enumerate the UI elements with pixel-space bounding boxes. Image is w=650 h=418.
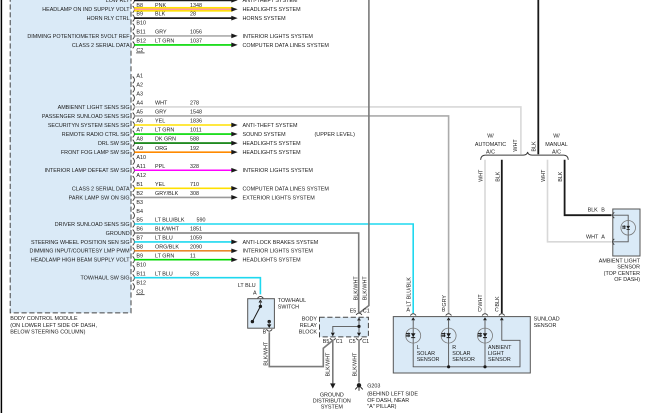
svg-text:LT GRN: LT GRN	[155, 253, 174, 259]
wire color label PNK pin B8	[155, 3, 202, 9]
arrow to HEADLIGHTS SYSTEM	[231, 257, 237, 262]
wire color label LT BLU/BLK pin B5	[155, 218, 206, 224]
switch contact dot bottom left	[251, 320, 254, 323]
wire B5 LT BLU/BLK 590 to sunload sensor pin A	[134, 224, 413, 313]
svg-text:28: 28	[190, 12, 196, 18]
svg-text:HEADLAMP HIGH BEAM SUPPLY VOLT: HEADLAMP HIGH BEAM SUPPLY VOLT	[31, 258, 130, 264]
svg-text:EXTERIOR LIGHTS SYSTEM: EXTERIOR LIGHTS SYSTEM	[243, 195, 316, 201]
svg-text:1548: 1548	[190, 110, 202, 116]
svg-text:AMBIENNT LIGHT SENS SIG: AMBIENNT LIGHT SENS SIG	[58, 105, 130, 111]
pin A4 bracket+label	[133, 101, 143, 111]
tow/haul switch S1 box	[248, 299, 275, 329]
svg-text:HEADLIGHTS SYSTEM: HEADLIGHTS SYSTEM	[243, 7, 302, 13]
svg-text:B10: B10	[136, 21, 146, 27]
body relay block (dashed box)	[320, 317, 369, 337]
svg-text:SENSOR: SENSOR	[488, 357, 511, 363]
svg-text:WHT: WHT	[513, 139, 519, 152]
pin B12 bracket+label	[133, 280, 146, 290]
svg-text:(TOP CENTER: (TOP CENTER	[604, 271, 640, 277]
sunload sensor pin D bracket	[482, 314, 488, 316]
svg-text:WHT: WHT	[541, 169, 547, 182]
brace splitting WHT/BLK into automatic and manual A/C	[481, 152, 569, 160]
svg-text:C5: C5	[349, 339, 356, 345]
wire B9 LT GRN to HEADLIGHTS SYSTEM	[134, 259, 231, 261]
svg-text:A9: A9	[136, 146, 143, 152]
pin B10 bracket+label	[133, 262, 146, 272]
svg-text:B2: B2	[136, 191, 143, 197]
pin A6 bracket+label	[133, 119, 143, 129]
wire A4 WHT 278 to A/C split	[134, 107, 521, 154]
svg-text:BLK/WHT: BLK/WHT	[352, 352, 358, 377]
wire color label LT GRN pin A7	[155, 128, 202, 134]
svg-text:OF DASH): OF DASH)	[614, 277, 640, 283]
pin B8 bracket+label	[133, 3, 143, 13]
arrow to EXTERIOR LIGHTS SYSTEM	[231, 195, 237, 200]
ground G203 symbol	[355, 383, 363, 391]
svg-text:TOW/HAUL SW SIG: TOW/HAUL SW SIG	[80, 276, 129, 282]
wire color label YEL pin B1	[155, 182, 199, 188]
svg-text:INTERIOR LAMP DEFEAT SW SIG: INTERIOR LAMP DEFEAT SW SIG	[45, 168, 130, 174]
svg-text:SYSTEM: SYSTEM	[321, 404, 344, 410]
pin B12 bracket+label	[133, 39, 146, 49]
svg-text:B5: B5	[136, 218, 143, 224]
svg-text:BLK/WHT: BLK/WHT	[354, 276, 360, 301]
wire color label GRY pin B11	[155, 30, 202, 36]
pin A5 bracket+label	[133, 110, 143, 120]
svg-text:LT GRN: LT GRN	[155, 128, 174, 134]
svg-text:SENSOR: SENSOR	[534, 323, 557, 329]
page left border line	[0, 0, 2, 413]
svg-text:INTERIOR LIGHTS SYSTEM: INTERIOR LIGHTS SYSTEM	[243, 168, 314, 174]
svg-text:HEADLIGHTS SYSTEM: HEADLIGHTS SYSTEM	[243, 150, 302, 156]
svg-text:A: A	[406, 308, 410, 314]
svg-text:INTERIOR LIGHTS SYSTEM: INTERIOR LIGHTS SYSTEM	[243, 249, 314, 255]
svg-text:WHT: WHT	[155, 101, 168, 107]
arrow into pin E5/C1	[357, 317, 361, 320]
wire color label LT BLU pin B7	[155, 236, 202, 242]
svg-text:1059: 1059	[190, 236, 202, 242]
arrow to HEADLIGHTS SYSTEM	[231, 150, 237, 155]
sunload sensor box	[393, 317, 530, 373]
svg-text:A: A	[601, 234, 605, 240]
wire color label GRY/BLK pin B2	[155, 191, 199, 197]
wire color label WHT pin A4	[155, 101, 199, 107]
svg-text:CLASS 2 SERIAL DATA: CLASS 2 SERIAL DATA	[72, 186, 130, 192]
svg-text:B7: B7	[136, 236, 143, 242]
wire color label ORG pin A9	[155, 146, 199, 152]
svg-text:B9: B9	[136, 253, 143, 259]
label TOW/HAUL SWITCH	[278, 298, 306, 310]
wire BLK manual A/C to ambient light sensor pin B	[565, 160, 612, 215]
svg-text:BLK: BLK	[495, 296, 501, 307]
svg-text:MANUAL: MANUAL	[545, 142, 567, 148]
svg-text:BLK: BLK	[495, 171, 501, 182]
wire WHT manual A/C to ambient light sensor pin A	[548, 160, 612, 242]
switch contact dot bottom right	[268, 320, 271, 323]
svg-text:BLK/WHT: BLK/WHT	[155, 227, 180, 233]
labels BLK B at pin B	[588, 208, 606, 214]
label W/ MANUAL A/C	[545, 134, 567, 156]
svg-text:B: B	[263, 329, 267, 335]
pin A2 bracket+label	[133, 83, 143, 93]
svg-text:BLK/WHT: BLK/WHT	[263, 341, 269, 366]
wire WHT automatic A/C to sunload pin D	[484, 160, 486, 313]
svg-text:A2: A2	[136, 83, 143, 89]
svg-text:E5: E5	[350, 309, 357, 315]
wire B11 GRY to INTERIOR LIGHTS SYSTEM	[134, 35, 231, 37]
svg-text:YEL: YEL	[155, 182, 165, 188]
svg-text:588: 588	[190, 137, 199, 143]
wire color label LT GRN pin B12	[155, 39, 202, 45]
arrow to INTERIOR LIGHTS SYSTEM	[231, 168, 237, 173]
svg-text:WHT: WHT	[586, 234, 599, 240]
svg-text:BLK/WHT: BLK/WHT	[326, 352, 332, 377]
label R SOLAR SENSOR	[452, 345, 475, 363]
svg-text:WHT: WHT	[478, 294, 484, 307]
svg-text:HEADLAMP ON IND SUPPLY VOLT: HEADLAMP ON IND SUPPLY VOLT	[42, 7, 130, 13]
svg-text:PARK LAMP SW ON SIG: PARK LAMP SW ON SIG	[69, 195, 130, 201]
svg-text:SOUND SYSTEM: SOUND SYSTEM	[243, 132, 287, 138]
svg-text:(BEHIND LEFT SIDE: (BEHIND LEFT SIDE	[367, 392, 418, 398]
sunload internal wire pin C to common bus	[413, 320, 520, 367]
arrow to COMPUTER DATA LINES SYSTEM	[231, 186, 237, 191]
svg-text:LIGHT: LIGHT	[488, 351, 505, 357]
svg-text:PASSENGER SUNLOAD SENS SIG: PASSENGER SUNLOAD SENS SIG	[42, 114, 130, 120]
svg-text:(UPPER LEVEL): (UPPER LEVEL)	[315, 132, 356, 138]
svg-text:BODY: BODY	[302, 316, 318, 322]
svg-text:BLK: BLK	[588, 208, 599, 214]
svg-text:OF DASH, NEAR: OF DASH, NEAR	[367, 398, 409, 404]
svg-text:308: 308	[190, 191, 199, 197]
svg-text:ANTI-THEFT SYSTEM: ANTI-THEFT SYSTEM	[243, 123, 299, 129]
arrow to INTERIOR LIGHTS SYSTEM	[231, 34, 237, 39]
pin C5/C1 bracket	[356, 338, 362, 340]
wire B1 YEL to COMPUTER DATA LINES SYSTEM	[134, 187, 231, 189]
wire BLK/WHT from pin B5/C1 to ground distribution system	[332, 341, 334, 383]
svg-text:LT BLU: LT BLU	[238, 283, 256, 289]
svg-text:B4: B4	[136, 209, 143, 215]
svg-text:A1: A1	[136, 74, 143, 80]
svg-text:SOLAR: SOLAR	[452, 351, 470, 357]
pin B bracket of tow/haul switch	[266, 329, 272, 331]
switch blade	[252, 306, 260, 321]
wire BLK automatic A/C to sunload pin C	[501, 160, 503, 313]
svg-text:GRY: GRY	[155, 110, 167, 116]
svg-text:C1: C1	[362, 339, 369, 345]
label G203 (BEHIND LEFT SIDE OF DASH, NEAR A PILLAR)	[367, 384, 418, 410]
wire B9 BLK to HORNS SYSTEM	[134, 17, 231, 19]
svg-text:A/C: A/C	[552, 149, 561, 155]
stem from contact to pin B with arrow	[268, 322, 270, 325]
pin A7 bracket+label	[133, 128, 143, 138]
svg-text:B3: B3	[136, 200, 143, 206]
pin B11 bracket+label	[133, 271, 146, 281]
svg-text:A/C: A/C	[486, 149, 495, 155]
svg-text:1011: 1011	[190, 128, 202, 134]
svg-text:LOW RLY: LOW RLY	[106, 0, 130, 4]
pin B7 bracket+label	[133, 0, 143, 4]
arrow to pin C5/C1	[357, 333, 361, 337]
arrow to HEADLIGHTS SYSTEM	[231, 141, 237, 146]
svg-text:A10: A10	[136, 155, 146, 161]
label SUNLOAD SENSOR	[534, 316, 560, 329]
ambient light sensor (top center of dash) box	[613, 209, 640, 256]
svg-text:B1: B1	[136, 182, 143, 188]
svg-text:BELOW STEERING COLUMN): BELOW STEERING COLUMN)	[10, 330, 85, 336]
svg-text:1056: 1056	[190, 30, 202, 36]
svg-text:BLK: BLK	[155, 12, 166, 18]
pin A11 bracket+label	[133, 164, 146, 174]
svg-text:SECURITYN SYSTEM SENS SIG: SECURITYN SYSTEM SENS SIG	[48, 123, 130, 129]
labels WHT A at pin A	[586, 234, 605, 240]
arrow to INTERIOR LIGHTS SYSTEM	[231, 248, 237, 253]
arrow to HORNS SYSTEM	[231, 16, 237, 21]
svg-text:SOLAR: SOLAR	[417, 351, 435, 357]
svg-text:A7: A7	[136, 128, 143, 134]
wire B11 LT BLU 553 to tow/haul switch pin A	[134, 278, 260, 295]
sunload internal wire pin B to R solar sensor	[448, 320, 450, 367]
svg-text:B10: B10	[136, 262, 146, 268]
svg-text:WHT: WHT	[478, 169, 484, 182]
svg-text:GRY/BLK: GRY/BLK	[155, 191, 179, 197]
pin B11 bracket+label	[133, 30, 146, 40]
svg-text:SENSOR: SENSOR	[617, 265, 640, 271]
label AMBIENT LIGHT SENSOR (TOP CENTER OF DASH)	[599, 259, 641, 283]
svg-text:REMOTE RADIO CTRL SIG: REMOTE RADIO CTRL SIG	[62, 132, 130, 138]
svg-text:BLK/WHT: BLK/WHT	[362, 276, 368, 301]
wire B8 PNK to HEADLIGHTS SYSTEM	[134, 8, 231, 10]
svg-text:DIMMING INPUT/COURTESY LMP PWM: DIMMING INPUT/COURTESY LMP PWM	[30, 249, 131, 255]
svg-text:590: 590	[197, 218, 206, 224]
svg-text:SWITCH: SWITCH	[278, 304, 299, 310]
arrow into sunload pin C	[500, 317, 504, 320]
svg-text:L: L	[417, 345, 420, 351]
svg-text:278: 278	[190, 101, 199, 107]
arrow to ANTI-THEFT SYSTEM	[231, 123, 237, 128]
arrow into sunload pin B	[447, 317, 451, 320]
svg-text:DRL SW SIG: DRL SW SIG	[98, 141, 130, 147]
svg-text:LT BLU/BLK: LT BLU/BLK	[406, 277, 412, 307]
svg-text:INTERIOR LIGHTS SYSTEM: INTERIOR LIGHTS SYSTEM	[243, 34, 314, 40]
ambient light sensor photodiode (in sunload sensor)	[478, 328, 493, 343]
pin B6 bracket+label	[133, 227, 143, 237]
svg-text:11: 11	[190, 253, 196, 259]
wire B7 LT BLU to ANTI-LOCK BRAKES SYSTEM	[134, 241, 231, 243]
pin A8 bracket+label	[133, 137, 143, 147]
svg-text:HEADLIGHTS SYSTEM: HEADLIGHTS SYSTEM	[243, 141, 302, 147]
arrow to HEADLIGHTS SYSTEM	[231, 7, 237, 12]
junction dot in body relay block	[357, 325, 360, 328]
svg-text:CLASS 2 SERIAL DATA: CLASS 2 SERIAL DATA	[72, 43, 130, 49]
arrow to ANTI-THEFT SYSTEM	[231, 0, 237, 3]
wire BLK from top of page to A/C split	[537, 0, 539, 154]
pin A1 bracket+label	[133, 74, 143, 84]
svg-text:B: B	[442, 308, 446, 314]
R solar sensor photodiode	[441, 328, 456, 343]
wire BLK/WHT from switch pin B to body relay block pin B5	[269, 332, 332, 366]
svg-text:A12: A12	[136, 173, 146, 179]
svg-text:SENSOR: SENSOR	[417, 357, 440, 363]
pin B10 bracket+label	[133, 21, 146, 31]
svg-text:1836: 1836	[190, 119, 202, 125]
L solar sensor photodiode	[406, 328, 421, 343]
svg-text:BLK: BLK	[532, 141, 538, 152]
svg-text:ANTI-THEFT SYSTEM: ANTI-THEFT SYSTEM	[243, 0, 299, 4]
svg-text:710: 710	[190, 182, 199, 188]
svg-text:C1: C1	[336, 339, 343, 345]
wire B12 LT GRN to COMPUTER DATA LINES SYSTEM	[134, 44, 231, 46]
svg-text:HEADLIGHTS SYSTEM: HEADLIGHTS SYSTEM	[243, 258, 302, 264]
svg-text:B6: B6	[136, 227, 143, 233]
pin A bracket of ambient light sensor	[613, 239, 615, 245]
wire color label DK GRN pin A8	[155, 137, 199, 143]
svg-text:1851: 1851	[190, 227, 202, 233]
svg-text:GRY: GRY	[442, 295, 448, 307]
sunload sensor pin A bracket	[410, 314, 416, 316]
svg-text:COMPUTER DATA LINES SYSTEM: COMPUTER DATA LINES SYSTEM	[243, 186, 330, 192]
wire color label YEL pin A6	[155, 119, 202, 125]
wire color label BLK/WHT pin B6	[155, 227, 202, 233]
svg-text:AUTOMATIC: AUTOMATIC	[475, 142, 506, 148]
svg-text:RELAY: RELAY	[300, 323, 318, 329]
wire A5 GRY 1548 to sunload sensor pin B	[134, 116, 448, 313]
pin B5 bracket+label	[133, 218, 143, 228]
wire color label PPL pin A11	[155, 164, 199, 170]
pin B3 bracket+label	[133, 200, 143, 210]
pin A3 bracket+label	[133, 92, 143, 102]
svg-text:A: A	[253, 291, 257, 297]
svg-text:FRONT FOG LAMP SW SIG: FRONT FOG LAMP SW SIG	[61, 150, 130, 156]
internal wire with junction in body relay block	[333, 319, 359, 333]
svg-text:BLOCK: BLOCK	[299, 330, 318, 336]
svg-text:STEERING WHEEL POSITION SEN SI: STEERING WHEEL POSITION SEN SIG	[31, 240, 130, 246]
arrow to SOUND SYSTEM	[231, 132, 237, 137]
highlight band on wire B8	[134, 7, 232, 12]
connector label C2	[136, 48, 145, 54]
arrow into sunload pin A	[411, 317, 415, 320]
svg-text:LT BLU: LT BLU	[155, 271, 173, 277]
pin B9 bracket+label	[133, 253, 143, 263]
svg-text:553: 553	[190, 271, 199, 277]
wire B2 GRY/BLK to EXTERIOR LIGHTS SYSTEM	[134, 196, 231, 198]
svg-text:LT BLU: LT BLU	[155, 236, 173, 242]
pin A9 bracket+label	[133, 146, 143, 156]
labels B5 C1	[323, 339, 343, 345]
pin B bracket of ambient light sensor	[613, 212, 615, 218]
svg-text:ORG/BLK: ORG/BLK	[155, 244, 179, 250]
pin B9 bracket+label	[133, 12, 143, 22]
svg-text:TOW/HAUL: TOW/HAUL	[278, 298, 306, 304]
svg-text:YEL: YEL	[155, 119, 165, 125]
sunload internal wire pin D to ambient light sensor	[484, 320, 486, 367]
switch common contact stem	[259, 301, 261, 307]
svg-text:ANTI-LOCK BRAKES SYSTEM: ANTI-LOCK BRAKES SYSTEM	[243, 240, 319, 246]
svg-text:B8: B8	[136, 244, 143, 250]
arrow to COMPUTER DATA LINES SYSTEM	[231, 43, 237, 48]
pin B1 bracket+label	[133, 182, 143, 192]
svg-text:C: C	[495, 308, 499, 314]
wire color label LT BLU pin B11	[155, 271, 199, 277]
svg-text:B12: B12	[136, 39, 146, 45]
wire color label GRY pin A5	[155, 110, 202, 116]
svg-text:1037: 1037	[190, 39, 202, 45]
label L SOLAR SENSOR	[417, 345, 440, 363]
svg-text:GRY: GRY	[155, 30, 167, 36]
wire color label BLK pin B9	[155, 12, 196, 18]
photodiode symbol of ambient light sensor	[621, 221, 636, 236]
pin B4 bracket+label	[133, 209, 143, 219]
pin A bracket of tow/haul switch	[258, 296, 264, 298]
wire A7 LT GRN to SOUND SYSTEM	[134, 133, 231, 135]
wire B8 ORG/BLK to INTERIOR LIGHTS SYSTEM	[134, 250, 231, 252]
wire B6 BLK/WHT 1851 to body relay block pin E5	[134, 233, 358, 313]
svg-text:W/: W/	[487, 134, 494, 140]
svg-text:A11: A11	[136, 164, 145, 170]
switch contact dot top	[259, 305, 262, 308]
wire BLK/WHT from top of page to body relay block pin C1	[359, 0, 369, 313]
sunload sensor pin B bracket	[446, 314, 452, 316]
pin B2 bracket+label	[133, 191, 143, 201]
body control module U1 (dashed box)	[10, 0, 131, 313]
svg-text:HORN RLY CTRL: HORN RLY CTRL	[87, 16, 130, 22]
svg-text:192: 192	[190, 146, 199, 152]
labels E5 C1	[350, 309, 370, 315]
svg-text:DK GRN: DK GRN	[155, 137, 176, 143]
label ANBIENT LIGHT SENSOR	[488, 345, 512, 363]
svg-text:ANBIENT: ANBIENT	[488, 345, 512, 351]
connector label C3	[136, 290, 145, 296]
wire A8 DK GRN to HEADLIGHTS SYSTEM	[134, 142, 231, 144]
svg-text:D: D	[478, 308, 482, 314]
svg-text:A8: A8	[136, 137, 143, 143]
label BODY CONTROL MODULE location	[10, 316, 97, 336]
svg-text:B9: B9	[136, 12, 143, 18]
svg-text:B12: B12	[136, 280, 146, 286]
svg-text:BLK: BLK	[558, 171, 564, 182]
arrow into sunload pin D	[483, 317, 487, 320]
arrow to ANTI-LOCK BRAKES SYSTEM	[231, 240, 237, 245]
svg-text:A6: A6	[136, 119, 143, 125]
wire A9 ORG to HEADLIGHTS SYSTEM	[134, 151, 231, 153]
svg-text:G203: G203	[367, 384, 380, 390]
svg-text:BODY CONTROL MODULE: BODY CONTROL MODULE	[10, 316, 78, 322]
pin B5/C1 bracket	[330, 338, 336, 340]
arrow to pin B5/C1	[331, 333, 335, 337]
svg-text:COMPUTER DATA LINES SYSTEM: COMPUTER DATA LINES SYSTEM	[243, 43, 330, 49]
svg-text:DRIVER SUNLOAD SENS SIG: DRIVER SUNLOAD SENS SIG	[55, 222, 130, 228]
svg-text:B11: B11	[136, 271, 145, 277]
svg-text:A3: A3	[136, 92, 143, 98]
svg-text:A5: A5	[136, 110, 143, 116]
arrow to ground distribution system	[330, 383, 335, 388]
internal wiring of ambient light sensor	[614, 215, 629, 242]
svg-text:A4: A4	[136, 101, 143, 107]
svg-text:2090: 2090	[190, 244, 202, 250]
svg-text:328: 328	[190, 164, 199, 170]
wire A6 YEL to ANTI-THEFT SYSTEM	[134, 124, 231, 126]
pin A10 bracket+label	[133, 155, 146, 165]
pin E5/C1 bracket on top of body relay block	[356, 313, 362, 315]
svg-text:W/: W/	[553, 134, 560, 140]
svg-text:R: R	[452, 345, 456, 351]
junction dot at ambient light sensor on bus	[483, 365, 486, 368]
svg-text:LT GRN: LT GRN	[155, 39, 174, 45]
pin B7 bracket+label	[133, 236, 143, 246]
sunload internal wire pin A to L solar sensor	[412, 320, 414, 367]
label GROUND DISTRIBUTION SYSTEM	[313, 392, 351, 410]
svg-text:B11: B11	[136, 30, 145, 36]
svg-text:PPL: PPL	[155, 164, 165, 170]
